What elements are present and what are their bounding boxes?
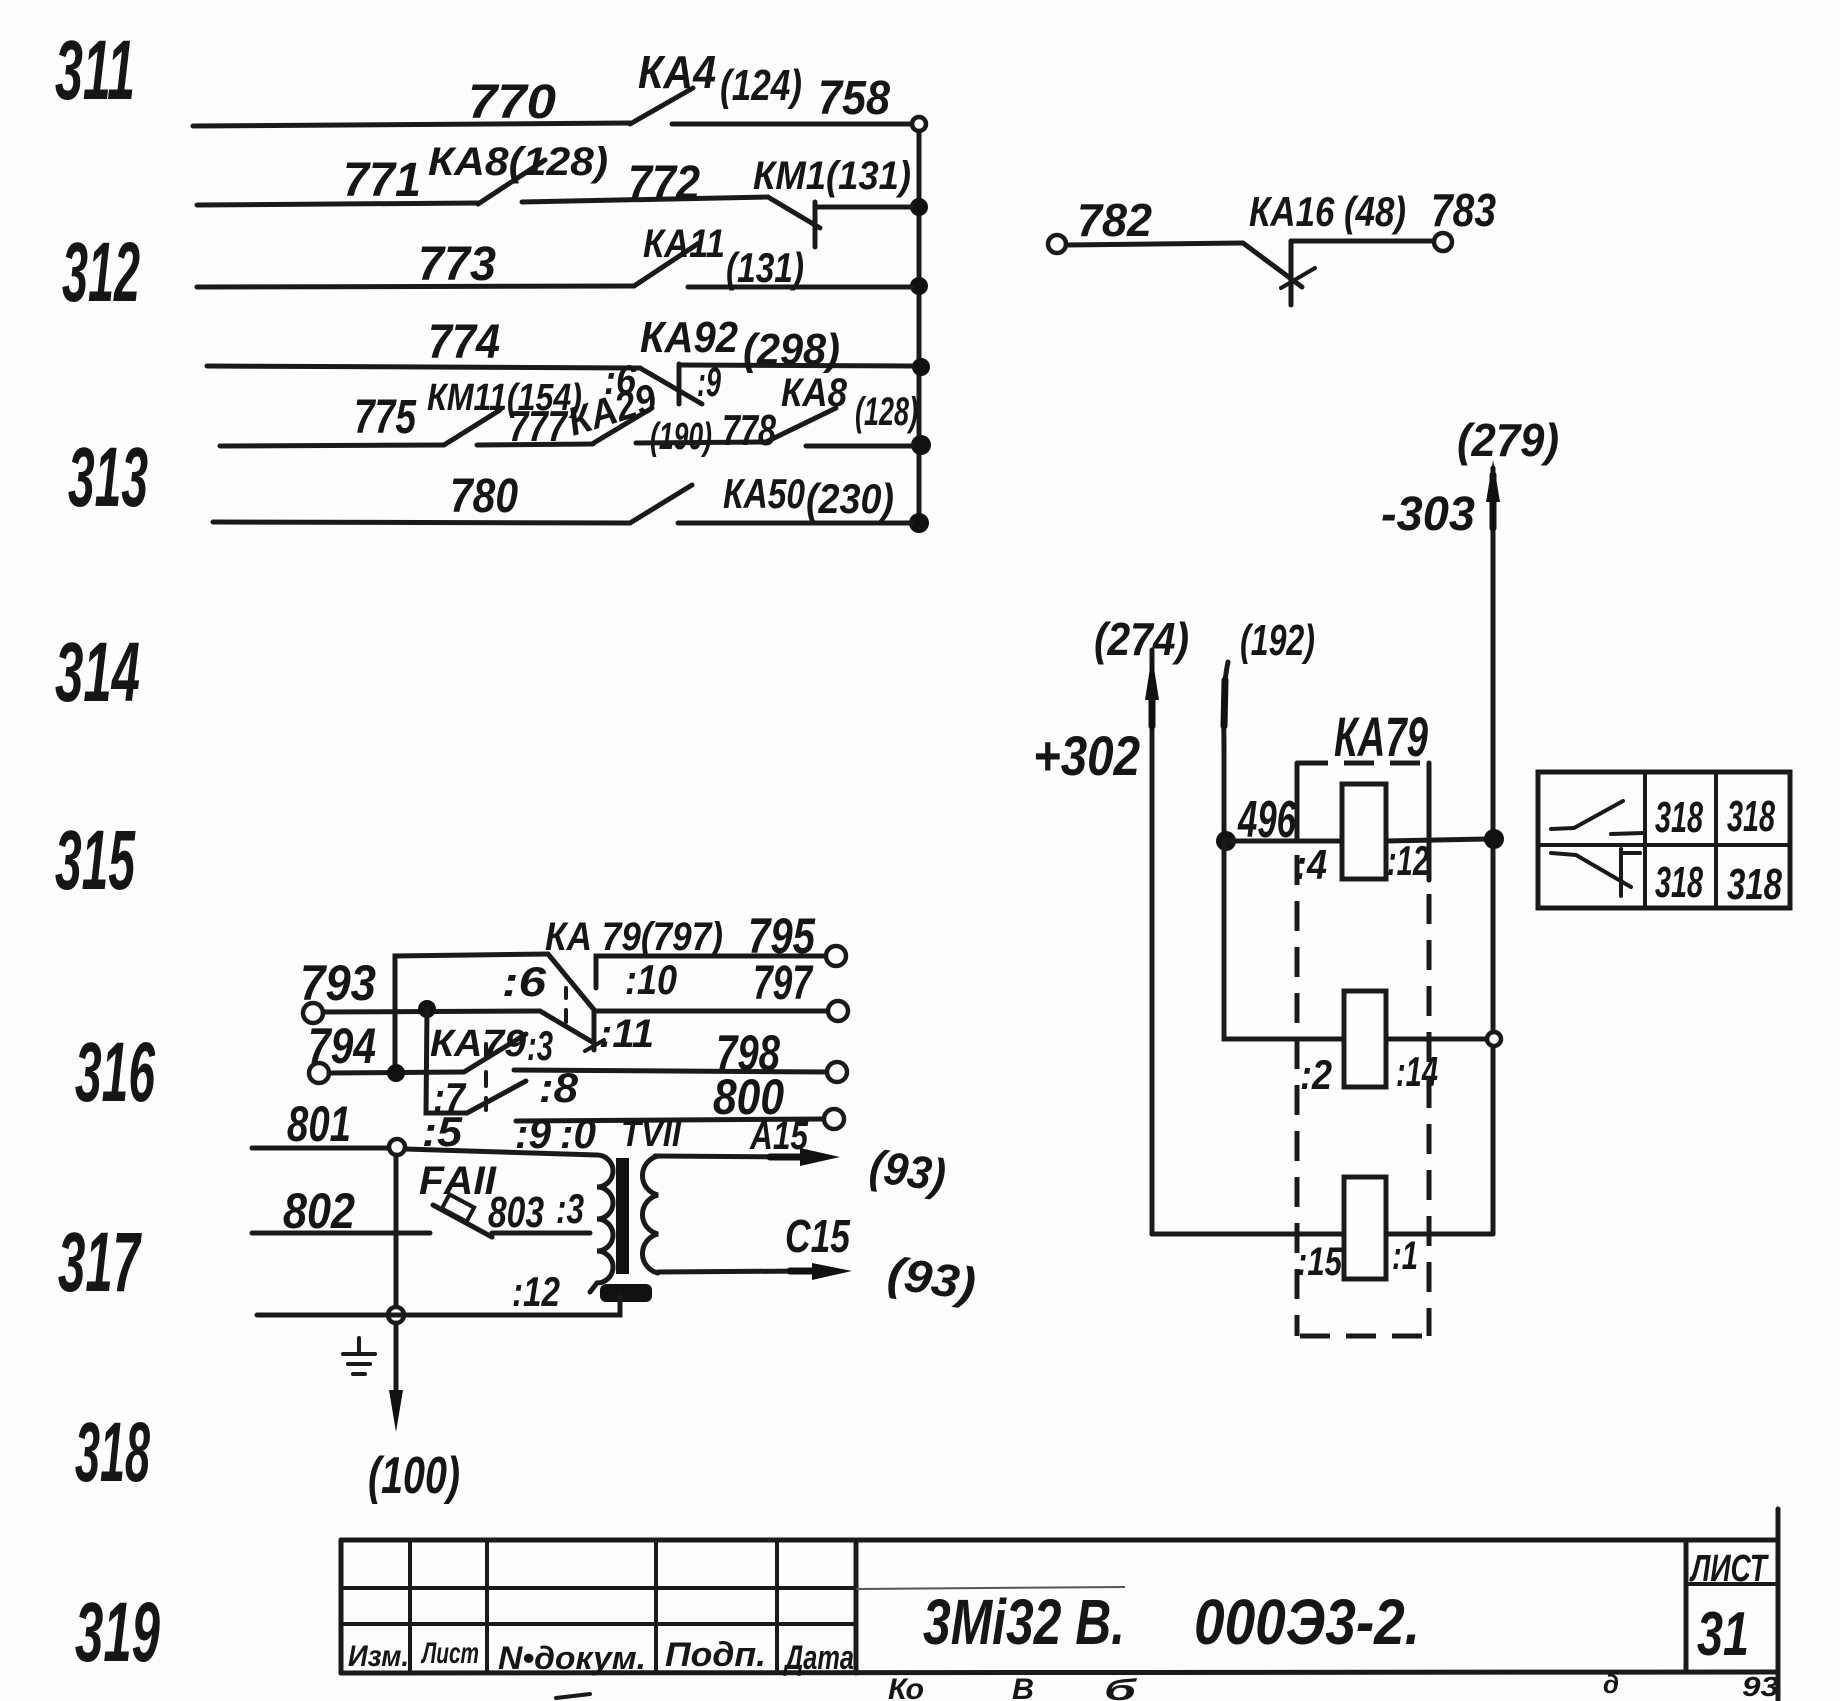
svg-text:783: 783 — [1431, 184, 1496, 236]
svg-text:794: 794 — [308, 1018, 376, 1074]
wire C15 output — [658, 1271, 810, 1272]
svg-text:КМ1(131): КМ1(131) — [753, 154, 911, 198]
svg-text:775: 775 — [354, 391, 417, 444]
wire 780 — [213, 522, 630, 523]
contact KA8 (128) lower — [766, 408, 836, 442]
svg-text:(192): (192) — [1240, 616, 1315, 665]
contact KA11 (131) — [634, 243, 699, 286]
svg-text:315: 315 — [55, 813, 136, 907]
contact KA50 (230) — [630, 485, 692, 523]
svg-text:КА 79(797): КА 79(797) — [545, 915, 723, 959]
junction riser/794 — [387, 1064, 405, 1082]
contact KA4 — [630, 88, 693, 124]
relay KA79 dashed enclosure — [1298, 761, 1429, 766]
wire 773 — [197, 286, 634, 287]
svg-text:758: 758 — [818, 72, 890, 125]
wire 798 — [514, 1070, 828, 1072]
transformer screen blob — [600, 1284, 652, 1302]
svg-text:С15: С15 — [785, 1210, 851, 1262]
wire 802 — [252, 1231, 430, 1236]
junction row4 — [912, 358, 930, 376]
svg-text::10: :10 — [625, 956, 677, 1003]
svg-text:FАII: FАII — [419, 1159, 497, 1203]
svg-text::9: :9 — [515, 1110, 552, 1157]
svg-text:318: 318 — [1655, 858, 1703, 907]
wire bottom return — [257, 1297, 620, 1315]
node 793 terminal — [303, 1003, 323, 1023]
svg-text::12: :12 — [512, 1268, 560, 1315]
svg-text:Дата: Дата — [783, 1639, 854, 1677]
svg-text:318: 318 — [75, 1405, 150, 1499]
wire 800 — [516, 1119, 824, 1121]
contact KM11 (154) — [444, 410, 500, 445]
svg-text::3: :3 — [527, 1022, 553, 1069]
wire 783 — [1291, 239, 1434, 244]
riser 801 down — [394, 1155, 399, 1307]
junction row2 — [910, 198, 928, 216]
svg-text:б: б — [1104, 1674, 1138, 1701]
contact KA79 :8 armature — [467, 1081, 526, 1113]
svg-text:000Э3-2.: 000Э3-2. — [1194, 1586, 1420, 1658]
svg-text:93: 93 — [1742, 1671, 1779, 1701]
svg-text:803: 803 — [488, 1188, 544, 1237]
node on -303 open — [1487, 1032, 1501, 1046]
wire 801 to primary — [405, 1149, 597, 1155]
svg-text::15: :15 — [1297, 1240, 1343, 1284]
junction on -303 — [1484, 829, 1504, 849]
svg-text:КА4: КА4 — [638, 46, 716, 98]
svg-text:793: 793 — [300, 955, 376, 1011]
svg-text:КА79: КА79 — [1334, 705, 1428, 768]
wire riser top — [395, 954, 548, 1073]
svg-text:КА16 (48): КА16 (48) — [1249, 188, 1406, 235]
wire 797 — [594, 1009, 828, 1014]
wire +302 vertical — [1150, 650, 1155, 1234]
wire 770 — [193, 123, 630, 126]
svg-text:317: 317 — [58, 1215, 142, 1309]
svg-text:(230): (230) — [806, 475, 894, 522]
wire 801 — [252, 1146, 389, 1151]
svg-text:772: 772 — [628, 157, 700, 210]
node 758 open terminal — [912, 117, 926, 131]
wire -303 vertical — [1491, 468, 1496, 1234]
wire riser to ground arrow — [394, 1323, 399, 1395]
svg-text:КА8(128): КА8(128) — [428, 140, 608, 184]
svg-text:3Мi32 В.: 3Мi32 В. — [923, 1586, 1125, 1658]
junction row6 — [909, 513, 929, 533]
wire 793 — [323, 1011, 540, 1012]
table NO contact glyph — [1551, 828, 1574, 829]
wire 774 — [207, 366, 640, 368]
svg-text:КА8: КА8 — [781, 371, 848, 415]
contact KA79 armature :6 — [548, 954, 595, 1011]
svg-text:(124): (124) — [720, 61, 802, 110]
svg-text:319: 319 — [75, 1585, 160, 1679]
svg-text::14: :14 — [1396, 1048, 1438, 1095]
svg-text:(93): (93) — [867, 1139, 949, 1201]
title block rows — [341, 1586, 856, 1590]
node 782 terminal — [1048, 235, 1066, 253]
svg-text:Изм.: Изм. — [348, 1640, 409, 1673]
bus vertical right — [917, 126, 922, 523]
wire 782 — [1066, 243, 1243, 245]
svg-text::0: :0 — [560, 1110, 596, 1157]
node 496 — [1216, 831, 1236, 851]
svg-text:КА50: КА50 — [723, 470, 805, 517]
svg-text:780: 780 — [450, 470, 518, 523]
svg-text::6: :6 — [502, 958, 547, 1005]
svg-text:770: 770 — [468, 76, 556, 129]
wire 192 drop — [1224, 662, 1228, 841]
svg-text:316: 316 — [75, 1025, 156, 1119]
svg-text:797: 797 — [753, 957, 814, 1010]
svg-text:N•докум.: N•докум. — [498, 1640, 646, 1676]
node 794 terminal — [309, 1063, 329, 1083]
svg-text:(131): (131) — [726, 244, 804, 291]
transformer TVII secondary winding — [642, 1156, 658, 1273]
svg-text:782: 782 — [1077, 194, 1152, 246]
svg-text:802: 802 — [283, 1183, 355, 1239]
wire 803 to tap — [492, 1231, 590, 1236]
contact reference table — [1538, 772, 1790, 908]
svg-text::8: :8 — [539, 1064, 579, 1111]
svg-text:+302: +302 — [1033, 724, 1140, 787]
svg-text:313: 313 — [68, 430, 148, 524]
wire 772 — [522, 197, 768, 202]
svg-text:778: 778 — [722, 406, 776, 455]
contact KA79 :3 armature — [464, 1034, 526, 1072]
svg-text:Ко: Ко — [888, 1673, 924, 1701]
transformer core — [616, 1158, 629, 1274]
svg-text:314: 314 — [55, 625, 140, 719]
coil KA79 :2-:14 — [1344, 991, 1386, 1087]
svg-text:777: 777 — [509, 402, 569, 451]
svg-text:ТVII: ТVII — [621, 1113, 682, 1154]
seat :11 bracket — [592, 1012, 597, 1050]
svg-text:А15: А15 — [749, 1114, 808, 1158]
svg-text:318: 318 — [1727, 860, 1782, 909]
title block columns — [408, 1540, 412, 1673]
svg-text:ЛИСТ: ЛИСТ — [1689, 1548, 1769, 1590]
svg-text:31: 31 — [1697, 1600, 1749, 1669]
svg-text:-303: -303 — [1381, 488, 1475, 541]
svg-text::3: :3 — [556, 1185, 584, 1232]
contact KA8 (128) — [478, 160, 545, 204]
svg-text:Лист: Лист — [421, 1637, 479, 1670]
ground symbol — [357, 1338, 361, 1352]
svg-text:(274): (274) — [1094, 613, 1189, 665]
junction open at bottom wire — [388, 1307, 404, 1323]
coil KA79 :15-:1 — [1152, 1232, 1344, 1237]
junction 793/branch — [418, 1000, 436, 1018]
svg-text:КА92: КА92 — [640, 313, 738, 362]
svg-text:795: 795 — [748, 908, 816, 964]
transformer TVII primary winding — [590, 1155, 613, 1292]
wire 777 — [477, 444, 593, 445]
svg-text:773: 773 — [418, 238, 496, 291]
svg-text::12: :12 — [1387, 837, 1429, 884]
svg-text:(190): (190) — [650, 416, 712, 458]
svg-text:КА11: КА11 — [643, 222, 725, 266]
svg-text::2: :2 — [1300, 1051, 1332, 1098]
linkage dashes — [564, 988, 568, 998]
junction row3 — [910, 277, 928, 295]
svg-text:(128): (128) — [855, 390, 918, 434]
table NC contact glyph — [1551, 853, 1576, 855]
svg-text:318: 318 — [1655, 793, 1703, 842]
svg-text:(100): (100) — [368, 1447, 460, 1505]
wire 496 drop to coil2 — [1224, 841, 1344, 1039]
svg-text::1: :1 — [1392, 1234, 1418, 1278]
contact KA29 (190) — [592, 408, 652, 444]
wire 778 — [636, 442, 766, 443]
svg-text::4: :4 — [1295, 841, 1327, 888]
svg-text:801: 801 — [287, 1096, 351, 1152]
svg-text:Подп.: Подп. — [665, 1636, 766, 1674]
contact KA79 armature lower — [540, 1011, 594, 1043]
wire 771 — [197, 203, 478, 205]
node 801 open junction — [389, 1139, 405, 1155]
linkage dashes lower — [484, 1044, 488, 1058]
node 783 terminal — [1434, 233, 1452, 251]
svg-text:774: 774 — [428, 316, 500, 369]
wire 794 — [329, 1072, 464, 1073]
contact KM1 (131) — [768, 197, 820, 228]
junction row5 — [911, 435, 931, 455]
svg-text:(298): (298) — [743, 325, 840, 374]
wire A15 output — [655, 1156, 800, 1157]
wire 795 with seat :10 — [596, 956, 827, 988]
contact KA92 (298) changeover — [640, 368, 702, 404]
svg-text::9: :9 — [697, 358, 721, 405]
coil KA79 :4-:12 — [1226, 839, 1342, 844]
contact KA16 (48) — [1243, 243, 1302, 287]
svg-text:312: 312 — [62, 225, 140, 319]
svg-text:771: 771 — [343, 154, 421, 207]
breaker FA11 — [433, 1205, 492, 1237]
svg-text:д: д — [1603, 1669, 1619, 1699]
svg-text:318: 318 — [1727, 792, 1775, 841]
svg-text:КА79: КА79 — [430, 1023, 526, 1065]
svg-text:311: 311 — [55, 23, 135, 117]
svg-text:(279): (279) — [1457, 414, 1559, 466]
wire 775 — [220, 445, 444, 446]
svg-text::11: :11 — [599, 1012, 654, 1056]
title block frame — [341, 1538, 1778, 1543]
wire branch to :5 — [426, 1009, 467, 1113]
svg-text:В: В — [1012, 1673, 1034, 1701]
